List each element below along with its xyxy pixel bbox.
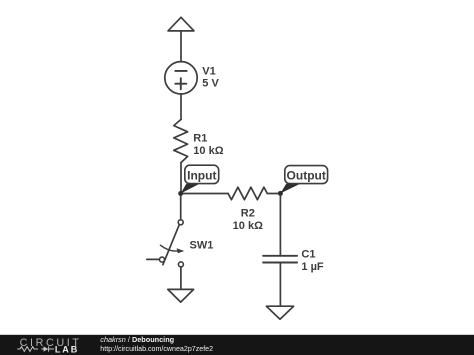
wire C1 to right ground [279, 263, 281, 307]
wire Input node to R2 [181, 193, 228, 195]
net flag Input box [185, 165, 219, 183]
switch SW1 [147, 220, 185, 267]
svg-text:1 µF: 1 µF [301, 261, 324, 273]
svg-text:R1: R1 [193, 133, 207, 145]
wire Output node down to C1 [279, 194, 281, 256]
net flag Output box [285, 166, 328, 184]
node Output junction [278, 191, 283, 196]
net flag Input pointer [181, 184, 200, 194]
svg-text:LAB: LAB [55, 344, 79, 354]
resistor R1 [174, 119, 188, 162]
ground left [168, 289, 194, 302]
net flag Output pointer [280, 184, 300, 194]
wire SW1 to left ground [180, 267, 182, 290]
wire Input node down to SW1 [180, 194, 182, 220]
svg-text:SW1: SW1 [190, 239, 214, 251]
capacitor C1 [263, 256, 297, 263]
ground right [266, 306, 293, 319]
footer bar [0, 335, 474, 355]
svg-text:C1: C1 [301, 248, 315, 260]
power rail up-arrow [168, 17, 194, 31]
svg-text:Input: Input [187, 169, 216, 183]
svg-text:V1: V1 [202, 65, 215, 77]
wire R1 to Input node [180, 163, 182, 194]
wire V1 to R1 [180, 94, 182, 119]
svg-text:R2: R2 [241, 208, 255, 220]
wire R2 to Output node [267, 193, 280, 195]
svg-text:10 kΩ: 10 kΩ [193, 145, 223, 157]
node Input junction [178, 191, 183, 196]
wire arrow to V1 [180, 31, 182, 62]
svg-text:5 V: 5 V [202, 77, 219, 89]
svg-text:http://circuitlab.com/cwnea2p7: http://circuitlab.com/cwnea2p7zefe2 [100, 345, 213, 353]
svg-text:10 kΩ: 10 kΩ [233, 220, 263, 232]
svg-text:chakrsn / Debouncing: chakrsn / Debouncing [100, 335, 174, 344]
voltage source V1 [165, 62, 197, 94]
CircuitLab logo squiggle and diode [17, 346, 54, 351]
resistor R2 [228, 187, 267, 200]
svg-text:Output: Output [287, 169, 326, 183]
